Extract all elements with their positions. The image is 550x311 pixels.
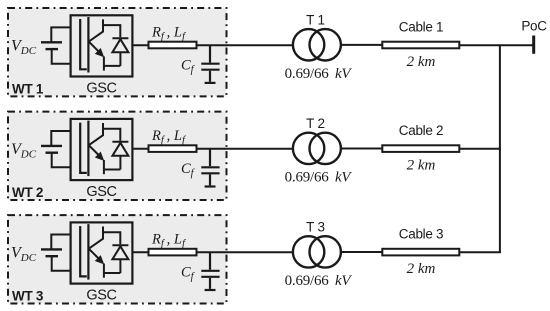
collection bus vertical wire [499,45,501,252]
diode D (WT 2) [112,142,128,170]
dc source VDC (WT 3) battery plates [41,249,62,256]
svg-text:T 2: T 2 [306,116,325,131]
wire GSC output to filter (WT 1) [132,44,148,46]
svg-text:Rf , Lf: Rf , Lf [151,232,187,250]
transformer T 2 circles [293,133,341,164]
svg-text:0.69/66 kV: 0.69/66 kV [285,273,353,289]
GSC top rail (WT 1) [103,25,120,37]
svg-text:WT 2: WT 2 [12,185,43,200]
diode D (WT 1) [112,38,128,66]
dash-dot enclosure box WT 1 [8,8,227,96]
svg-text:GSC: GSC [86,80,116,96]
wire filter to transformer (WT 2) [197,148,294,150]
svg-text:0.69/66 kV: 0.69/66 kV [285,170,353,186]
svg-text:2 km: 2 km [407,54,436,70]
IGBT emitter lead with arrow (WT 2) [88,145,98,155]
svg-text:Rf , Lf: Rf , Lf [151,128,187,146]
filter resistor-inductor Rf,Lf (WT 1) [149,42,197,49]
converter GSC box (WT 2) [71,119,133,180]
wire GSC output to filter (WT 3) [132,251,148,253]
cable 2 impedance box [382,145,459,152]
dash-dot enclosure box WT 2 [8,112,227,200]
IGBT emitter lead with arrow (WT 3) [88,248,98,258]
svg-text:PoC: PoC [521,19,547,34]
filter capacitor Cf (WT 3) [201,252,219,290]
svg-text:T 1: T 1 [306,13,325,28]
svg-text:2 km: 2 km [407,261,436,277]
svg-text:Rf , Lf: Rf , Lf [151,25,187,43]
GSC bottom rail (WT 1) [104,65,121,67]
GSC top rail (WT 3) [103,232,120,244]
wire GSC output to filter (WT 2) [132,148,148,150]
wire VDC negative to GSC (WT 3) [52,256,71,271]
wire filter to transformer (WT 3) [197,251,294,253]
wire transformer to cable (WT 1) [341,44,382,46]
filter capacitor Cf (WT 1) [201,45,219,83]
wire VDC positive to GSC (WT 1) [51,27,70,42]
svg-text:T 3: T 3 [306,220,325,235]
wire transformer to cable (WT 2) [341,148,382,150]
svg-text:Cable 1: Cable 1 [399,20,443,35]
IGBT emitter lead with arrow (WT 1) [88,41,98,51]
svg-text:GSC: GSC [86,184,116,200]
cable 3 impedance box [382,249,459,256]
filter resistor-inductor Rf,Lf (WT 2) [149,145,197,152]
IGBT gate bar (WT 3) [87,224,89,280]
GSC dc-link bar with foot (WT 3) [80,226,87,276]
cable 1 impedance box [382,42,459,49]
svg-text:GSC: GSC [86,287,116,303]
GSC top rail (WT 2) [103,129,120,141]
filter capacitor Cf (WT 2) [201,149,219,187]
IGBT collector lead (WT 1) [88,19,103,41]
dc source VDC (WT 1) battery plates [41,42,62,49]
svg-text:WT 3: WT 3 [12,289,44,304]
transformer T 3 circles [293,236,341,267]
dash-dot enclosure box WT 3 [8,215,227,303]
wire transformer to cable (WT 3) [341,251,382,253]
IGBT gate bar (WT 2) [87,121,89,177]
GSC bottom rail (WT 3) [104,272,121,274]
wire cable 2 to collection bus [459,148,501,150]
svg-text:2 km: 2 km [407,158,436,174]
GSC dc-link bar with foot (WT 1) [80,19,87,69]
svg-text:0.69/66 kV: 0.69/66 kV [285,66,353,82]
svg-text:Cable 3: Cable 3 [399,227,443,242]
GSC dc-link bar with foot (WT 2) [80,123,87,173]
converter GSC box (WT 1) [71,15,133,76]
converter GSC box (WT 3) [71,222,133,283]
diode D (WT 3) [112,245,128,273]
wire cable 1 to PoC terminal [459,44,533,46]
IGBT collector lead (WT 2) [88,123,103,145]
svg-text:WT 1: WT 1 [12,82,44,97]
GSC bottom rail (WT 2) [104,169,121,171]
wire VDC positive to GSC (WT 3) [51,235,70,250]
dc source VDC (WT 2) battery plates [41,146,62,153]
wire VDC positive to GSC (WT 2) [51,131,70,146]
transformer T 1 circles [293,29,341,60]
wire cable 3 to collection bus [459,251,501,253]
PoC terminal bar [532,36,535,54]
IGBT collector lead (WT 3) [88,227,103,249]
filter resistor-inductor Rf,Lf (WT 3) [149,249,197,256]
IGBT gate bar (WT 1) [87,17,89,73]
wire VDC negative to GSC (WT 1) [52,49,71,64]
svg-text:Cable 2: Cable 2 [399,123,443,138]
wire VDC negative to GSC (WT 2) [52,153,71,168]
wire filter to transformer (WT 1) [197,44,294,46]
